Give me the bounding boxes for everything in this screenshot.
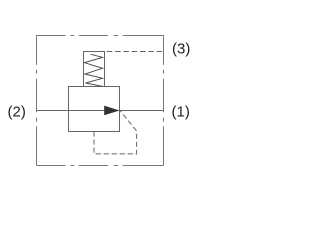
boundary envelope left edge bbox=[36, 36, 38, 166]
pilot line to (3) (dashed) bbox=[107, 51, 164, 53]
boundary envelope (dash-dot) top edge bbox=[37, 35, 164, 37]
valve body box bbox=[69, 87, 120, 132]
spring zigzag bbox=[85, 54, 103, 86]
svg-text:(1): (1) bbox=[172, 104, 190, 121]
pilot/drain dashed loop bbox=[94, 111, 137, 154]
main flow line (2)-(1) bbox=[37, 110, 164, 112]
svg-text:(2): (2) bbox=[8, 104, 26, 121]
boundary envelope bottom edge bbox=[37, 165, 164, 167]
flow arrow (poppet) bbox=[104, 106, 119, 116]
svg-text:(3): (3) bbox=[172, 41, 190, 58]
spring box bbox=[84, 52, 105, 87]
boundary envelope right edge bbox=[163, 36, 165, 166]
